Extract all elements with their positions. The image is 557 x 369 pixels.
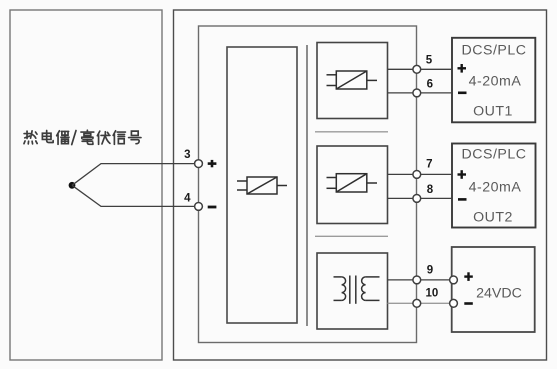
- isolation symbol in A1: [327, 71, 378, 89]
- label 热电偶/毫伏信号: [24, 130, 141, 144]
- wire A2 to terminal 7: [388, 173, 414, 175]
- 电: [42, 131, 53, 143]
- wire terminal 8 to DCS OUT2: [420, 197, 452, 199]
- isolation symbol in A2: [327, 174, 378, 192]
- wire sensor to terminal 3: [72, 164, 195, 186]
- wire T1 to terminal 9: [388, 279, 414, 281]
- minus sign OUT2: [458, 198, 467, 201]
- wire sensor to terminal 4: [72, 185, 195, 206]
- svg-text:9: 9: [427, 264, 433, 276]
- svg-text:3: 3: [184, 149, 190, 161]
- plus sign OUT1: [458, 64, 467, 73]
- svg-text:7: 7: [426, 159, 432, 171]
- plus sign terminal 3: [208, 160, 217, 167]
- svg-text:4-20mA: 4-20mA: [469, 74, 522, 90]
- terminal 3: [195, 160, 203, 168]
- power supply block T1: [317, 253, 388, 329]
- 号: [129, 131, 141, 144]
- minus sign OUT1: [458, 92, 467, 95]
- terminal 7: [413, 171, 421, 179]
- svg-text:4: 4: [184, 193, 191, 205]
- 热: [24, 131, 37, 144]
- wire A1 to terminal 6: [388, 92, 414, 94]
- input amplifier block U1: [227, 47, 297, 323]
- svg-text:6: 6: [427, 78, 433, 90]
- terminal 6: [413, 89, 421, 97]
- channel separator 1: [315, 131, 388, 133]
- DCS/PLC OUT2 box: [452, 144, 536, 228]
- minus sign 24VDC: [464, 302, 473, 305]
- svg-text:10: 10: [426, 288, 439, 300]
- wire terminal 10 to 24VDC: [420, 302, 450, 304]
- output amplifier block A2: [317, 146, 388, 224]
- inner box: terminal block: [199, 26, 417, 343]
- output amplifier block A1: [317, 43, 388, 119]
- terminal 5: [413, 65, 421, 73]
- wire A1 to terminal 5: [388, 68, 414, 70]
- wire terminal 9 to 24VDC: [420, 279, 450, 281]
- 毫: [81, 130, 94, 144]
- left box: sensor field area: [10, 10, 162, 360]
- 偶: [57, 131, 69, 145]
- plus sign OUT2: [458, 170, 467, 179]
- wire terminal 5 to DCS OUT1: [420, 68, 452, 70]
- outer box: isolator module: [174, 10, 547, 360]
- svg-text:DCS/PLC: DCS/PLC: [462, 43, 527, 59]
- 信: [113, 131, 125, 145]
- terminal 10: [413, 299, 421, 307]
- svg-text:4-20mA: 4-20mA: [469, 180, 522, 196]
- terminal 4: [195, 203, 203, 211]
- plus sign 24VDC: [464, 272, 473, 281]
- svg-text:5: 5: [426, 55, 433, 67]
- 24VDC minus terminal: [450, 299, 458, 307]
- svg-text:DCS/PLC: DCS/PLC: [462, 147, 527, 163]
- junction dot (sensor): [69, 182, 76, 189]
- 24VDC box: [452, 247, 535, 332]
- DCS/PLC OUT1 box: [452, 38, 535, 123]
- terminal 8: [413, 195, 421, 203]
- terminal 9: [413, 276, 421, 284]
- svg-text:OUT1: OUT1: [473, 104, 513, 120]
- 伏: [97, 131, 110, 144]
- svg-text:OUT2: OUT2: [473, 210, 513, 226]
- channel separator 2: [315, 235, 388, 237]
- /: [72, 131, 76, 145]
- wire terminal 6 to DCS OUT1: [420, 92, 452, 94]
- wire A2 to terminal 8: [388, 197, 414, 199]
- transformer T1 symbol: [334, 276, 380, 304]
- wire T1 to terminal 10: [388, 302, 414, 304]
- 24VDC plus terminal: [450, 276, 458, 284]
- isolation symbol in U1: [237, 177, 287, 194]
- partition line: [306, 45, 308, 326]
- wire terminal 7 to DCS OUT2: [420, 173, 452, 175]
- svg-text:8: 8: [427, 184, 434, 196]
- minus sign terminal 4: [208, 206, 217, 209]
- svg-text:24VDC: 24VDC: [476, 285, 522, 301]
